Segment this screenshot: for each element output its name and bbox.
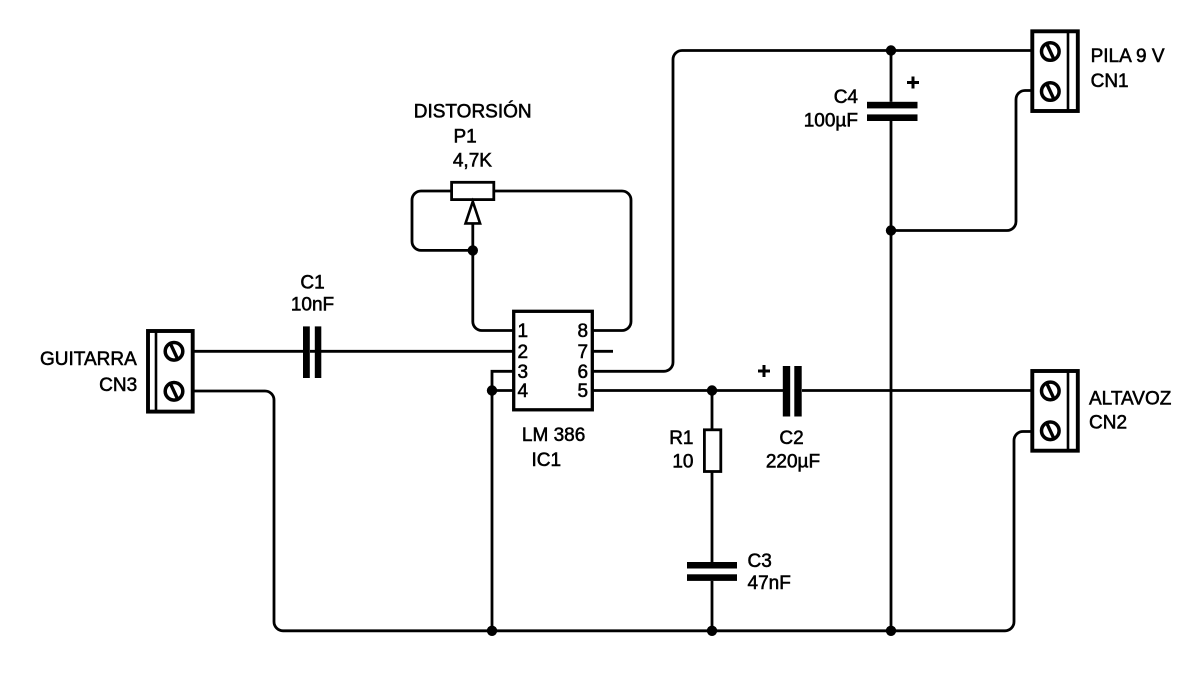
node C3 / bottom rail bbox=[707, 626, 717, 636]
plus sign of C2 bbox=[758, 365, 770, 377]
node IC pin 3-4 ground bbox=[487, 385, 497, 395]
svg-text:C3: C3 bbox=[748, 551, 772, 572]
wire IC pin 5 to C2 bbox=[592, 389, 783, 392]
svg-text:R1: R1 bbox=[669, 428, 693, 449]
svg-text:10nF: 10nF bbox=[291, 295, 334, 316]
svg-text:CN1: CN1 bbox=[1091, 71, 1129, 92]
potentiometer P1 wiper arrow bbox=[466, 202, 481, 224]
wire main vertical rail C4 bottom to bottom rail bbox=[890, 121, 893, 631]
terminal block CN1 body bbox=[1032, 31, 1078, 111]
svg-text:LM 386: LM 386 bbox=[522, 425, 585, 446]
node main rail / bottom rail bbox=[886, 626, 896, 636]
wire battery negative from rail to CN1 lower bbox=[891, 91, 1032, 231]
wire IC pin 7 stub bbox=[592, 350, 613, 353]
svg-text:2: 2 bbox=[518, 342, 529, 363]
node top rail / C4 bbox=[886, 45, 896, 55]
svg-text:GUITARRA: GUITARRA bbox=[40, 349, 137, 370]
wire ground vertical to bottom rail bbox=[491, 391, 494, 631]
capacitor C4 plates bbox=[867, 102, 918, 121]
svg-text:CN2: CN2 bbox=[1089, 413, 1127, 434]
svg-text:7: 7 bbox=[578, 342, 589, 363]
plus sign of C4 bbox=[907, 77, 919, 89]
screw lower CN1 bbox=[1042, 83, 1060, 101]
svg-text:6: 6 bbox=[578, 362, 589, 383]
svg-text:P1: P1 bbox=[454, 127, 477, 148]
wire IC pin 4 stub bbox=[492, 389, 514, 392]
svg-text:DISTORSIÓN: DISTORSIÓN bbox=[414, 101, 532, 123]
terminal block CN3 body bbox=[148, 331, 193, 412]
svg-text:10: 10 bbox=[672, 452, 693, 473]
wire C2 to CN2 upper bbox=[802, 389, 1032, 392]
capacitor C1 plates bbox=[303, 326, 321, 378]
svg-text:5: 5 bbox=[578, 381, 589, 402]
svg-text:8: 8 bbox=[578, 321, 589, 342]
svg-text:CN3: CN3 bbox=[99, 375, 137, 396]
capacitor C3 plates bbox=[687, 562, 737, 581]
wire R1 bottom to C3 bbox=[711, 472, 714, 563]
node ground vertical / bottom rail bbox=[487, 626, 497, 636]
svg-text:C4: C4 bbox=[834, 87, 859, 108]
svg-text:IC1: IC1 bbox=[532, 450, 562, 471]
wire pot wiper down to IC pin 1 bbox=[473, 223, 514, 330]
svg-text:47nF: 47nF bbox=[748, 573, 791, 594]
svg-text:C2: C2 bbox=[779, 428, 803, 449]
screw upper CN1 bbox=[1042, 43, 1060, 61]
svg-text:4: 4 bbox=[518, 381, 529, 402]
node C4 bottom / battery negative bbox=[886, 225, 896, 235]
terminal block CN2 body bbox=[1032, 371, 1078, 451]
node pot wiper junction bbox=[468, 245, 478, 255]
capacitor C2 plates bbox=[783, 366, 802, 417]
screw upper CN2 bbox=[1042, 382, 1060, 400]
svg-text:220µF: 220µF bbox=[766, 452, 820, 473]
node pin5 / R1 / C2 bbox=[707, 385, 717, 395]
wire C1 to IC pin 2 bbox=[310, 350, 514, 353]
wire C3 to bottom rail bbox=[711, 581, 714, 631]
wire CN3 upper to C1 bbox=[192, 350, 303, 353]
wire pot left end to wiper junction bbox=[412, 191, 473, 250]
resistor R1 body bbox=[704, 430, 720, 472]
wire top rail from pin6 riser to CN1 upper bbox=[592, 51, 1032, 372]
svg-text:ALTAVOZ: ALTAVOZ bbox=[1089, 388, 1172, 409]
svg-text:1: 1 bbox=[518, 321, 529, 342]
svg-text:C1: C1 bbox=[300, 272, 324, 293]
potentiometer P1 body bbox=[452, 182, 494, 199]
svg-text:3: 3 bbox=[518, 362, 529, 383]
wire IC pin 3 to ground vertical bbox=[492, 371, 514, 390]
svg-text:PILA 9 V: PILA 9 V bbox=[1091, 46, 1165, 67]
wire R1 top lead bbox=[711, 391, 714, 430]
screw upper CN3 bbox=[165, 343, 183, 361]
wire CN3 lower to bottom rail to CN2 lower bbox=[192, 391, 1032, 631]
screw lower CN2 bbox=[1042, 422, 1060, 440]
op-amp IC1 LM386 body bbox=[514, 311, 593, 410]
svg-text:100µF: 100µF bbox=[804, 110, 858, 131]
wire C4 top lead bbox=[890, 51, 893, 102]
wire pot right end to IC pin 8 bbox=[494, 191, 631, 331]
svg-text:4,7K: 4,7K bbox=[453, 151, 492, 172]
screw lower CN3 bbox=[165, 383, 183, 401]
